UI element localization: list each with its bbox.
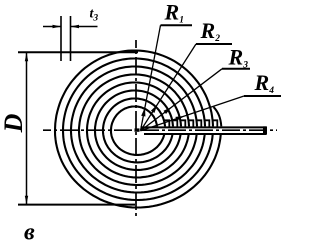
vertical centerline xyxy=(135,40,137,219)
spiral outer end hook above lead xyxy=(214,107,222,126)
R leaders with arrows xyxy=(141,25,161,131)
D dimension line xyxy=(26,53,28,204)
svg-text:в: в xyxy=(24,220,35,246)
D top extension line xyxy=(18,51,138,53)
R3 underline xyxy=(222,68,250,70)
straight lead (tail) top line xyxy=(141,126,267,128)
R2 underline xyxy=(196,43,232,45)
wire exit channel (white band over spiral) xyxy=(140,126,282,134)
svg-text:D: D xyxy=(0,113,28,133)
D arrow up xyxy=(25,53,28,62)
t3 right arrow xyxy=(71,25,80,28)
straight lead (tail) bottom line xyxy=(144,133,266,135)
t3 extension line right xyxy=(70,16,72,61)
R1 underline xyxy=(161,24,193,26)
lead end cap xyxy=(263,126,267,134)
t3 dimension line left part xyxy=(43,26,61,28)
t3 dimension line right part xyxy=(71,26,98,28)
horizontal centerline xyxy=(43,129,277,131)
D bottom extension line xyxy=(18,204,135,206)
center blob xyxy=(135,128,140,131)
t3 extension line left xyxy=(60,16,62,61)
spiral coil body xyxy=(55,51,221,208)
R4 underline xyxy=(244,95,281,97)
turn step hooks above lead xyxy=(164,120,169,127)
D arrow down xyxy=(25,196,28,205)
t3 left arrow xyxy=(53,25,62,28)
